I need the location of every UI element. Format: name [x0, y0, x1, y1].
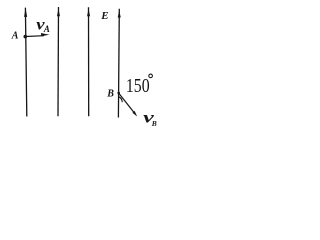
arrowhead field line 2 [57, 9, 60, 17]
degree symbol [149, 74, 153, 78]
svg-text:A: A [11, 31, 19, 42]
point A dot [24, 35, 28, 39]
angle arc at B [119, 97, 123, 102]
field line 2 [57, 7, 60, 116]
field line 1 [25, 8, 26, 117]
point B junction dot [117, 92, 120, 95]
svg-text:B: B [151, 119, 157, 128]
svg-text:A: A [43, 24, 50, 34]
svg-text:B: B [106, 89, 114, 100]
arrowhead field line 3 [87, 9, 90, 17]
velocity vector vB shaft [119, 93, 135, 113]
velocity vector vB arrowhead [132, 111, 137, 117]
velocity vector vA arrowhead [41, 33, 50, 36]
velocity vector vA shaft [26, 35, 44, 38]
svg-text:150: 150 [126, 75, 150, 97]
field line 3 [88, 7, 90, 116]
arrowhead field line 4 [118, 10, 121, 17]
arrowhead field line 1 [24, 8, 27, 17]
svg-text:E: E [100, 10, 108, 22]
field line 4 [117, 9, 120, 118]
